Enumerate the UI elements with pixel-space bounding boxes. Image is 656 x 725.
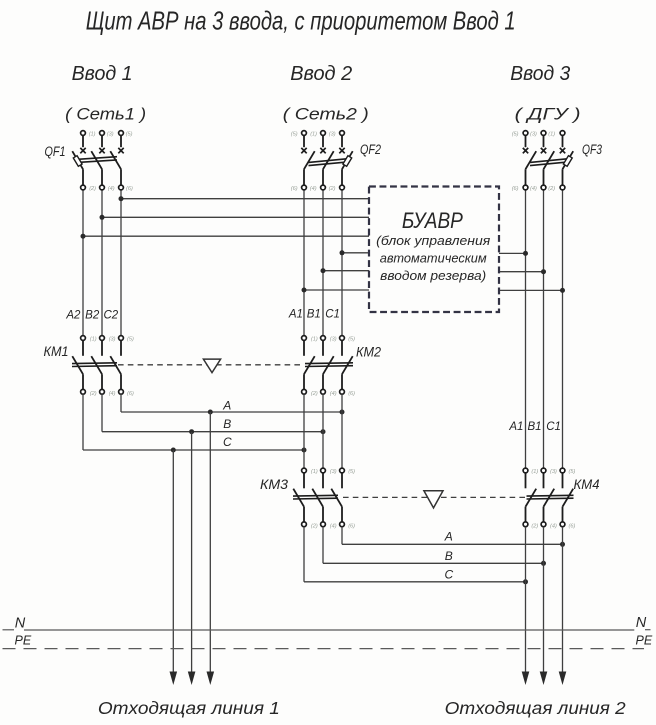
- svg-text:C: C: [223, 435, 232, 449]
- svg-text:QF2: QF2: [360, 141, 381, 157]
- QF2 bottom pin numbers (6)(4)(2): [291, 186, 336, 192]
- wire tap QF1 B to BUAVR: [102, 216, 369, 218]
- wire tap QF2 A to BUAVR: [304, 289, 369, 291]
- wire tap QF2 B to BUAVR: [323, 270, 369, 272]
- svg-text:( Сеть1 ): ( Сеть1 ): [65, 104, 146, 123]
- wire tap QF1 A to BUAVR: [83, 235, 369, 237]
- interlock dashed link KM1-KM2: [118, 364, 304, 366]
- wire QF2 pole B down to KM2: [322, 190, 324, 336]
- circuit breaker QF2: [301, 131, 352, 190]
- svg-text:Отходящая линия 2: Отходящая линия 2: [445, 698, 626, 718]
- wire KM1 C to bus A: [120, 394, 122, 412]
- wire outgoing line 1 phase B with arrow: [191, 432, 193, 673]
- svg-text:В1: В1: [307, 309, 321, 321]
- svg-text:N: N: [636, 615, 647, 631]
- svg-text:( ДГУ ): ( ДГУ ): [515, 104, 581, 123]
- wire tap QF3 A to BUAVR: [499, 252, 526, 254]
- svg-text:(6): (6): [291, 186, 298, 192]
- QF1 bottom pin numbers (2)(4)(6): [89, 186, 133, 192]
- svg-text:(3): (3): [330, 337, 337, 343]
- svg-text:А: А: [222, 399, 231, 413]
- junction lower bus B to KM4: [541, 561, 546, 566]
- svg-text:(3): (3): [530, 132, 537, 138]
- interlock triangle symbol 2: [424, 491, 443, 508]
- svg-text:(4): (4): [109, 391, 116, 397]
- svg-text:(3): (3): [329, 132, 336, 138]
- QF3 bottom pin numbers (6)(4)(2): [512, 186, 556, 192]
- svg-text:( Сеть2 ): ( Сеть2 ): [283, 104, 369, 123]
- junction QF2 C tap: [340, 250, 345, 255]
- svg-text:(6): (6): [127, 391, 134, 397]
- QF2 top pin numbers (5)(1)(3): [291, 132, 336, 138]
- svg-text:(6): (6): [348, 391, 355, 397]
- KM4 bottom pin numbers (2)(4)(6): [531, 523, 575, 529]
- svg-text:(2): (2): [548, 186, 555, 192]
- circuit breaker QF1: [72, 131, 123, 190]
- svg-text:(6): (6): [512, 186, 519, 192]
- wire outgoing line 2 phase B with arrow: [543, 527, 545, 673]
- svg-text:вводом резерва): вводом резерва): [380, 268, 486, 283]
- wire QF2 pole C down to KM2: [341, 190, 343, 336]
- wire tap QF3 B to BUAVR: [499, 271, 544, 273]
- junction QF1 B tap: [100, 215, 105, 220]
- svg-text:(5): (5): [126, 132, 133, 138]
- svg-text:Ввод 2: Ввод 2: [290, 63, 352, 85]
- svg-text:А: А: [444, 529, 453, 543]
- wire KM3 A to lower bus C: [303, 527, 305, 582]
- svg-text:С1: С1: [325, 309, 340, 321]
- svg-text:(5): (5): [127, 337, 134, 343]
- svg-text:(2): (2): [90, 391, 97, 397]
- wire outgoing line 1 phase A with arrow: [209, 412, 211, 673]
- neutral bus N: [24, 629, 634, 631]
- node labels A1 B1 C1 above KM2: [288, 309, 340, 321]
- svg-text:(4): (4): [330, 391, 337, 397]
- svg-text:(2): (2): [329, 186, 336, 192]
- svg-text:(3): (3): [550, 469, 557, 475]
- svg-text:Отходящая линия 1: Отходящая линия 1: [98, 698, 280, 718]
- wire tap QF3 C to BUAVR: [499, 289, 563, 291]
- wire QF1 pole C down to KM1: [120, 190, 122, 336]
- svg-text:(1): (1): [311, 337, 318, 343]
- junction lower bus A to KM4: [560, 542, 565, 547]
- wire KM3 C to lower bus A: [341, 527, 343, 545]
- svg-text:Ввод 1: Ввод 1: [72, 63, 133, 85]
- wire KM2 B down to KM3: [322, 394, 324, 468]
- KM1 top pin numbers (1)(3)(5): [90, 337, 134, 343]
- junction lower bus C to KM4: [523, 579, 528, 584]
- svg-text:А1: А1: [288, 309, 303, 321]
- svg-text:(1): (1): [310, 132, 317, 138]
- svg-text:С2: С2: [103, 310, 118, 322]
- wire KM2 C down to KM3: [341, 394, 343, 468]
- svg-text:(6): (6): [569, 523, 576, 529]
- junction QF2 A tap: [302, 288, 307, 293]
- svg-text:В1: В1: [527, 421, 541, 433]
- junction QF1 A tap: [81, 234, 86, 239]
- wire QF3 pole A down to KM4: [525, 190, 527, 468]
- contactor KM1: [72, 336, 123, 395]
- KM1 bottom pin numbers (2)(4)(6): [90, 391, 134, 397]
- svg-text:N: N: [15, 615, 26, 631]
- QF1 top pin numbers (1)(3)(5): [89, 132, 133, 138]
- KM3 top pin numbers (1)(3)(5): [311, 469, 355, 475]
- svg-text:(4): (4): [330, 523, 337, 529]
- svg-text:(4): (4): [530, 186, 537, 192]
- svg-text:B: B: [223, 417, 231, 431]
- wire outgoing line 2 phase A with arrow: [525, 527, 527, 673]
- control unit BUAVR box: [369, 187, 499, 313]
- svg-text:В2: В2: [85, 310, 100, 322]
- svg-text:С1: С1: [546, 421, 561, 433]
- wire KM3 B to lower bus B: [322, 527, 324, 564]
- wire QF1 pole A down to KM1: [82, 190, 84, 336]
- svg-text:(3): (3): [330, 469, 337, 475]
- svg-text:(1): (1): [548, 132, 555, 138]
- svg-text:(2): (2): [89, 186, 96, 192]
- svg-text:(4): (4): [550, 523, 557, 529]
- contactor KM3: [293, 468, 344, 527]
- svg-text:(6): (6): [348, 523, 355, 529]
- svg-text:(3): (3): [109, 337, 116, 343]
- junction bus B outgoing drop: [189, 429, 194, 434]
- svg-text:(1): (1): [89, 132, 96, 138]
- svg-text:PE: PE: [636, 634, 653, 648]
- wire outgoing line 1 phase C with arrow: [172, 450, 174, 673]
- KM3 bottom pin numbers (2)(4)(6): [311, 523, 355, 529]
- junction QF2 B tap: [321, 268, 326, 273]
- svg-text:С: С: [444, 568, 453, 582]
- wire outgoing line 2 phase C with arrow: [562, 527, 564, 673]
- junction bus B to KM2: [321, 429, 326, 434]
- svg-text:(6): (6): [126, 186, 133, 192]
- KM2 top pin numbers (1)(3)(5): [311, 337, 355, 343]
- circuit breaker QF3: [523, 131, 573, 190]
- svg-text:(2): (2): [311, 523, 318, 529]
- svg-text:КМ1: КМ1: [44, 343, 69, 359]
- node labels A1 B1 C1 above KM4: [508, 421, 561, 433]
- svg-text:(5): (5): [348, 469, 355, 475]
- contactor KM2: [302, 336, 353, 395]
- wire QF3 pole B down to KM4: [543, 190, 545, 468]
- interlock dashed link KM3-KM4: [343, 496, 526, 498]
- wire QF1 pole B down to KM1: [101, 190, 103, 336]
- wire KM1 A to bus C: [82, 394, 84, 450]
- svg-text:(1): (1): [531, 469, 538, 475]
- svg-text:А2: А2: [65, 310, 81, 322]
- svg-text:(1): (1): [90, 337, 97, 343]
- wire tap QF1 C to BUAVR: [121, 198, 369, 200]
- wire KM2 A down to KM3: [303, 394, 305, 468]
- svg-text:КМ2: КМ2: [356, 344, 381, 360]
- svg-text:(2): (2): [311, 391, 318, 397]
- svg-text:QF1: QF1: [45, 143, 66, 159]
- svg-text:(5): (5): [348, 337, 355, 343]
- junction QF3 C tap: [560, 288, 565, 293]
- svg-text:(5): (5): [291, 132, 298, 138]
- wire QF2 pole A down to KM2: [303, 190, 305, 336]
- svg-text:автоматическим: автоматическим: [380, 250, 487, 265]
- svg-text:(5): (5): [569, 469, 576, 475]
- svg-text:(1): (1): [311, 469, 318, 475]
- svg-text:(5): (5): [512, 132, 519, 138]
- junction QF3 A tap: [523, 251, 528, 256]
- svg-text:(4): (4): [310, 186, 317, 192]
- junction bus A to KM2: [340, 410, 345, 415]
- wire QF3 pole C down to KM4: [562, 190, 564, 468]
- KM4 top pin numbers (1)(3)(5): [531, 469, 575, 475]
- svg-text:(блок управления: (блок управления: [376, 233, 490, 248]
- KM2 bottom pin numbers (2)(4)(6): [311, 391, 355, 397]
- wire KM1 B to bus B: [101, 394, 103, 432]
- svg-text:QF3: QF3: [582, 141, 602, 157]
- svg-text:КМ4: КМ4: [574, 476, 600, 492]
- node labels A2 B2 C2: [65, 310, 118, 322]
- junction QF3 B tap: [541, 269, 546, 274]
- svg-text:А1: А1: [508, 421, 523, 433]
- junction QF1 C tap: [119, 196, 124, 201]
- contactor KM4: [523, 468, 573, 527]
- interlock triangle symbol 1: [203, 359, 220, 373]
- QF3 top pin numbers (5)(3)(1): [512, 132, 556, 138]
- protective earth bus PE: [3, 648, 645, 650]
- svg-text:(2): (2): [531, 523, 538, 529]
- wire tap QF2 C to BUAVR: [342, 252, 369, 254]
- svg-text:(4): (4): [108, 186, 115, 192]
- svg-text:(3): (3): [107, 132, 114, 138]
- svg-text:Щит АВР на 3 ввода, с приорите: Щит АВР на 3 ввода, с приоритетом Ввод 1: [86, 6, 516, 36]
- svg-text:БУАВР: БУАВР: [402, 208, 463, 233]
- svg-text:КМ3: КМ3: [260, 476, 288, 492]
- junction bus C outgoing drop: [171, 448, 176, 453]
- svg-text:PE: PE: [15, 633, 32, 647]
- junction bus A outgoing drop: [208, 410, 213, 415]
- svg-text:Ввод 3: Ввод 3: [510, 63, 570, 85]
- svg-text:В: В: [445, 549, 453, 563]
- junction bus C to KM2: [302, 448, 307, 453]
